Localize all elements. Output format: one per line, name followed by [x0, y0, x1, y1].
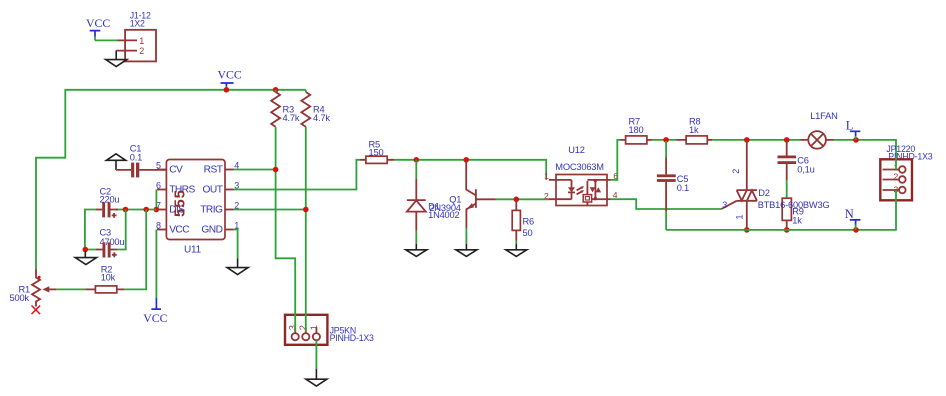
svg-text:2: 2: [894, 172, 899, 182]
svg-text:VCC: VCC: [169, 225, 189, 236]
junction: [224, 87, 230, 93]
diode D1: [407, 179, 461, 231]
svg-text:1: 1: [735, 214, 745, 219]
ground at C3: [75, 252, 96, 265]
light arrows: [577, 187, 583, 194]
pin 1 stub: [225, 229, 234, 231]
svg-text:4.7k: 4.7k: [283, 113, 300, 123]
svg-text:N: N: [845, 207, 854, 221]
resistor R2: [85, 264, 124, 293]
wire GND pin 1 down: [234, 230, 238, 259]
svg-text:1N4002: 1N4002: [428, 210, 459, 220]
wire U12 pin 4 to triac gate: [611, 199, 722, 209]
lamp L1FAN: [801, 111, 838, 149]
connector J1-12: [116, 10, 156, 61]
svg-text:L1FAN: L1FAN: [810, 111, 837, 121]
svg-text:U11: U11: [184, 245, 202, 256]
svg-text:6: 6: [156, 180, 161, 190]
wire R8 to lamp rail: [712, 139, 801, 141]
capacitor C6: [778, 141, 815, 180]
op-amp U11 555 timer box: [166, 160, 225, 256]
wire VCC pin 8 down: [155, 230, 157, 299]
svg-text:Q1: Q1: [449, 195, 461, 205]
wire JP5KN pin 1 to ground: [315, 340, 317, 368]
value label D2 BTB16-600BW3G: [758, 188, 830, 210]
junction: [273, 87, 279, 93]
svg-text:1k: 1k: [689, 125, 699, 135]
transistor Q1: [449, 163, 495, 229]
pin 4 line: [595, 198, 610, 200]
svg-text:CV: CV: [169, 165, 183, 176]
wire into JP1220 pin 1: [895, 156, 897, 170]
ground at J1 pin 2: [106, 51, 127, 67]
capacitor C5: [657, 141, 689, 211]
svg-text:8: 8: [156, 220, 161, 230]
wire into JP5KN pin 2: [305, 312, 307, 332]
svg-text:2: 2: [544, 191, 549, 201]
wire Q1 base rail to U12 pin 2: [496, 198, 550, 200]
svg-text:TRIG: TRIG: [200, 205, 223, 216]
triac D2: [721, 169, 757, 220]
supply N: [845, 207, 861, 230]
pin 6 line: [587, 179, 610, 181]
junction: [853, 227, 859, 233]
wire R3 bottom to RST: [276, 127, 296, 312]
ground (inverted) at C1: [106, 154, 125, 170]
wire R5 to LED rail: [394, 160, 546, 180]
capacitor C2: [96, 187, 119, 218]
pin 2 line: [549, 198, 572, 200]
svg-text:BTB16-600BW3G: BTB16-600BW3G: [758, 200, 830, 210]
junction: [853, 137, 859, 143]
resistor R8: [677, 117, 713, 144]
svg-text:U12: U12: [568, 145, 584, 155]
pin 4 stub: [225, 169, 234, 171]
svg-text:R6: R6: [523, 216, 535, 226]
wire top rail: [36, 90, 306, 269]
junction: [414, 157, 420, 163]
wire D1 bottom: [415, 231, 417, 244]
svg-text:2: 2: [731, 169, 741, 174]
svg-text:D2: D2: [758, 188, 770, 198]
supply L: [846, 118, 861, 140]
junction: [744, 137, 750, 143]
junction: [123, 207, 129, 213]
wire R7 to R8: [652, 139, 677, 141]
capacitor C3: [96, 228, 124, 258]
wire R6 bottom: [515, 241, 517, 244]
wire U12 pin 6 up to R7: [611, 140, 621, 180]
junction: [83, 247, 89, 253]
wire R3 top stub: [275, 90, 277, 92]
svg-text:2: 2: [139, 46, 144, 56]
svg-text:1: 1: [544, 171, 549, 181]
pin 8 stub: [157, 229, 166, 231]
wire D2 bottom: [746, 201, 748, 228]
svg-text:0.1: 0.1: [130, 153, 142, 163]
wire R1 wiper to R2: [56, 288, 85, 290]
wire D2 top: [746, 141, 748, 190]
triac inside: [594, 180, 596, 199]
potentiometer R1: [10, 269, 57, 307]
junction: [143, 207, 149, 213]
junction: [663, 137, 669, 143]
svg-text:5: 5: [156, 160, 161, 170]
wire Q1 emitter to ground: [465, 228, 467, 244]
wire D1 top: [415, 160, 417, 179]
wire RST to R3: [234, 169, 276, 171]
ground at 555 GND: [227, 258, 248, 274]
resistor R6: [512, 199, 534, 240]
junction: [784, 137, 790, 143]
svg-text:0,1u: 0,1u: [797, 164, 814, 174]
ground at Q1: [456, 244, 477, 257]
pin 5 stub: [157, 169, 166, 171]
junction: [514, 197, 520, 203]
wire R2 right up to DIS: [124, 210, 146, 290]
zero-cross box: [586, 181, 588, 195]
svg-text:VCC: VCC: [143, 311, 167, 325]
wire R4 top stub: [305, 90, 307, 92]
junction: [463, 157, 469, 163]
pin 7 stub: [156, 209, 166, 211]
svg-text:1k: 1k: [792, 215, 802, 225]
svg-text:10k: 10k: [101, 272, 116, 282]
junction: [154, 207, 160, 213]
ground at R6: [506, 244, 527, 257]
resistor R4: [301, 92, 330, 127]
pin 1 line: [549, 179, 572, 181]
wire VCC to J1 pin 1: [95, 39, 118, 41]
svg-text:MOC3063M: MOC3063M: [555, 162, 604, 172]
LED: [568, 180, 575, 199]
svg-text:1X2: 1X2: [130, 19, 145, 29]
capacitor C1: [116, 143, 166, 177]
unconnected pin marker at R1 bottom: [32, 306, 41, 315]
wire OUT to R5: [234, 160, 361, 190]
svg-text:500k: 500k: [10, 293, 30, 303]
resistor R9: [782, 198, 804, 228]
wire C6 to R9: [786, 180, 788, 198]
svg-text:PINHD-1X3: PINHD-1X3: [330, 333, 374, 343]
resistor R3: [271, 92, 300, 127]
resistor R5: [360, 140, 394, 164]
svg-text:OUT: OUT: [203, 185, 223, 196]
connector JP5KN: [285, 315, 374, 345]
supply VCC (top middle): [218, 68, 242, 90]
supply VCC (top-left): [86, 16, 110, 40]
pin 6 stub: [157, 189, 166, 191]
pin 3 stub: [225, 189, 234, 191]
wire C3 right up to DIS: [117, 210, 126, 250]
wire R4 bottom to TRIG: [305, 127, 307, 312]
ground at JP5KN: [306, 369, 327, 386]
wire lamp to L and JP1220: [834, 140, 897, 156]
wire into JP5KN pin 3: [294, 312, 296, 332]
optocoupler U12 MOC3063M: [544, 145, 618, 205]
svg-text:50: 50: [523, 228, 533, 238]
svg-text:GND: GND: [201, 225, 222, 236]
svg-text:0.1: 0.1: [677, 183, 689, 193]
svg-text:VCC: VCC: [218, 68, 242, 82]
svg-text:3: 3: [722, 200, 727, 210]
svg-text:VCC: VCC: [86, 16, 110, 30]
wire C5 bottom to rail: [665, 211, 667, 230]
svg-text:RST: RST: [204, 165, 223, 176]
svg-text:1: 1: [308, 325, 319, 330]
supply VCC (below 555): [143, 298, 167, 325]
svg-text:1: 1: [139, 36, 144, 46]
wire THRS-DIS tie: [155, 190, 157, 210]
junction: [744, 227, 750, 233]
resistor R7: [621, 117, 653, 144]
wire C2 left down to C3: [85, 210, 96, 250]
svg-text:555: 555: [172, 189, 189, 217]
svg-text:180: 180: [629, 125, 644, 135]
wire JP1220 pin 3 to N rail: [666, 202, 896, 230]
svg-text:4.7k: 4.7k: [313, 113, 330, 123]
junction: [784, 227, 790, 233]
junction: [303, 207, 309, 213]
junction: [273, 167, 279, 173]
svg-text:L: L: [846, 118, 854, 132]
connector JP1220: [880, 144, 932, 200]
wire DIS line: [116, 209, 156, 211]
wire out of JP1220 pin 3: [895, 190, 897, 202]
ground at D1: [406, 244, 427, 257]
pin 2 stub: [225, 209, 234, 211]
wire TRIG to R4 line: [234, 209, 306, 211]
